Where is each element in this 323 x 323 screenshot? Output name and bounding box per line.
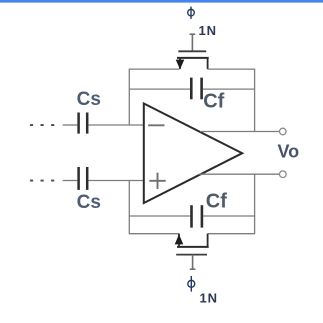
right feedback vertical top	[254, 69, 256, 132]
dashed source stub (plus input)	[30, 180, 54, 182]
gate wire top	[190, 34, 196, 51]
output terminal top	[280, 128, 287, 135]
svg-text:Cs: Cs	[77, 192, 101, 213]
wire plus input to op-amp	[89, 180, 144, 182]
gate bar top (transistor M1)	[178, 50, 206, 52]
source drop with arrow top left	[179, 58, 181, 69]
plus input symbol	[149, 173, 165, 189]
top inner rail (Cf branch)	[129, 88, 190, 90]
wire plus input left of Cs	[63, 180, 78, 182]
wire minus input left of Cs	[63, 124, 78, 126]
top outer rail right segment	[208, 68, 255, 70]
channel bar bottom	[177, 246, 209, 248]
channel bar top	[177, 57, 209, 59]
svg-text:1N: 1N	[200, 290, 218, 305]
svg-text:Cf: Cf	[203, 90, 224, 112]
svg-text:Cs: Cs	[77, 89, 101, 110]
output terminal bottom	[280, 171, 287, 178]
svg-text:Vo: Vo	[278, 141, 300, 161]
left feedback vertical top	[128, 69, 130, 126]
source drop with arrow bottom left (transistor M2)	[178, 234, 180, 247]
top outer rail left segment	[129, 68, 179, 70]
bottom outer rail right segment	[208, 233, 255, 235]
capacitor Cf bottom plates	[192, 205, 202, 227]
gate wire bottom	[190, 255, 196, 270]
capacitor Cf top plates	[191, 78, 201, 100]
wire minus input to op-amp	[89, 124, 144, 126]
clock phi top	[188, 7, 195, 19]
bottom outer rail left segment	[129, 233, 179, 235]
left feedback vertical bottom	[128, 181, 130, 235]
gate bar bottom	[176, 254, 207, 256]
minus input symbol	[148, 124, 164, 126]
output wire bottom	[199, 173, 280, 175]
top blue divider	[0, 0, 323, 3]
dashed source stub (minus input)	[30, 124, 54, 126]
drain drop bottom right	[207, 234, 209, 247]
bottom inner rail (Cf branch)	[129, 215, 190, 217]
svg-text:Cf: Cf	[206, 191, 227, 213]
drain drop top right	[207, 58, 209, 69]
op-amp U1 triangle	[144, 104, 242, 204]
svg-text:1N: 1N	[199, 23, 217, 38]
clock phi bottom	[188, 276, 195, 292]
output wire top	[200, 131, 279, 133]
right feedback vertical bottom	[254, 174, 256, 234]
capacitor Cs bottom plates	[79, 167, 88, 190]
capacitor Cs top plates	[79, 113, 88, 134]
